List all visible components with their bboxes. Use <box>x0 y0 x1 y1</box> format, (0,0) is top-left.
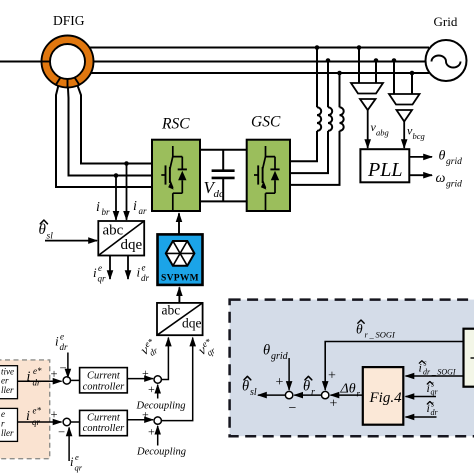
svg-text:Fig.4: Fig.4 <box>369 390 403 406</box>
svg-text:dqe: dqe <box>121 237 143 253</box>
svg-text:DFIG: DFIG <box>53 13 85 28</box>
svg-text:e*: e* <box>33 366 42 376</box>
svg-text:qr: qr <box>431 388 439 397</box>
svg-text:qr: qr <box>75 463 83 473</box>
svg-text:r _ SOGI: r _ SOGI <box>365 330 396 340</box>
svg-text:er: er <box>1 376 9 386</box>
svg-text:dr: dr <box>33 378 42 388</box>
svg-text:+: + <box>330 397 338 412</box>
svg-text:+: + <box>51 367 58 381</box>
svg-text:i: i <box>96 200 100 215</box>
svg-text:ller: ller <box>1 428 14 438</box>
svg-text:i: i <box>55 334 59 349</box>
svg-text:+: + <box>51 408 58 422</box>
svg-text:dr: dr <box>141 273 150 283</box>
svg-text:e: e <box>1 409 5 419</box>
svg-text:θ: θ <box>263 343 270 359</box>
svg-text:+: + <box>142 366 149 380</box>
svg-text:i: i <box>26 409 30 424</box>
svg-text:e: e <box>60 332 64 342</box>
svg-text:PLL: PLL <box>367 159 402 181</box>
svg-text:+: + <box>148 425 155 439</box>
svg-text:+: + <box>148 382 155 396</box>
svg-text:qr: qr <box>98 274 107 284</box>
svg-text:br: br <box>102 207 111 217</box>
svg-text:e*: e* <box>33 406 42 416</box>
svg-text:dc: dc <box>214 188 225 200</box>
svg-text:θ: θ <box>303 379 310 395</box>
svg-text:dr _ SOGI: dr _ SOGI <box>423 367 456 376</box>
svg-text:r: r <box>311 387 315 398</box>
svg-text:sl: sl <box>47 232 54 242</box>
svg-text:s: s <box>424 359 427 368</box>
svg-text:−: − <box>60 361 67 375</box>
svg-text:Grid: Grid <box>434 14 458 29</box>
svg-text:Δθ: Δθ <box>340 382 356 397</box>
svg-text:sl: sl <box>250 387 257 398</box>
svg-text:ller: ller <box>1 385 14 395</box>
svg-text:grid: grid <box>446 180 462 190</box>
svg-text:controller: controller <box>83 382 126 393</box>
svg-text:ω: ω <box>436 171 446 186</box>
svg-text:r: r <box>357 389 361 399</box>
svg-text:dr: dr <box>60 342 69 352</box>
svg-text:+: + <box>276 375 284 390</box>
svg-text:abc: abc <box>162 303 181 318</box>
svg-text:SVPWM: SVPWM <box>161 274 199 284</box>
svg-text:GSC: GSC <box>251 114 281 131</box>
svg-text:grid: grid <box>446 157 462 167</box>
svg-text:qr: qr <box>32 417 41 427</box>
svg-text:θ: θ <box>439 149 446 164</box>
svg-text:e: e <box>75 452 79 462</box>
svg-text:grid: grid <box>271 351 289 362</box>
svg-text:i: i <box>27 370 31 385</box>
svg-text:r: r <box>1 419 5 429</box>
svg-text:e: e <box>98 263 102 273</box>
svg-text:−: − <box>58 425 65 439</box>
svg-text:i: i <box>137 265 141 280</box>
svg-text:Current: Current <box>87 371 121 382</box>
svg-text:abg: abg <box>376 128 389 138</box>
svg-text:−: − <box>289 401 297 416</box>
svg-text:θ: θ <box>356 322 363 337</box>
svg-text:Current: Current <box>87 413 121 424</box>
svg-text:dqe: dqe <box>182 316 202 331</box>
svg-text:+: + <box>328 369 336 384</box>
svg-text:Decoupling: Decoupling <box>136 447 186 458</box>
svg-text:i: i <box>133 199 137 214</box>
svg-text:RSC: RSC <box>161 116 190 133</box>
svg-text:ar: ar <box>139 206 148 216</box>
svg-text:dr: dr <box>431 408 439 417</box>
svg-text:θ: θ <box>39 222 47 238</box>
svg-text:θ: θ <box>242 379 249 395</box>
svg-text:i: i <box>70 455 74 469</box>
svg-text:i: i <box>93 265 97 280</box>
svg-text:e: e <box>142 263 146 273</box>
svg-text:bcg: bcg <box>413 131 425 141</box>
svg-text:controller: controller <box>83 423 126 434</box>
svg-text:+: + <box>142 408 149 422</box>
